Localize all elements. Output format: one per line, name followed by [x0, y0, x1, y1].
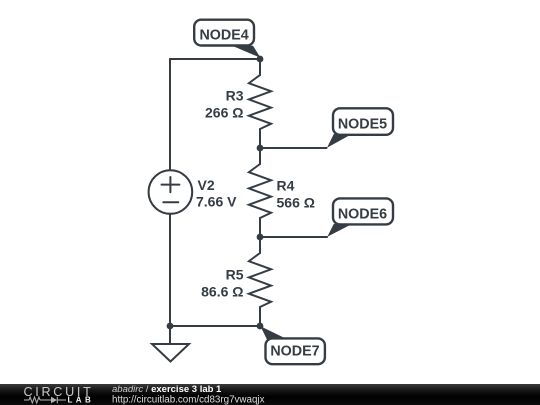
svg-text:NODE6: NODE6: [338, 206, 387, 222]
svg-text:V2: V2: [198, 177, 215, 193]
footer bar: [0, 384, 540, 405]
svg-text:NODE4: NODE4: [199, 27, 248, 43]
svg-text:7.66 V: 7.66 V: [196, 194, 237, 210]
wire left upper: [169, 59, 171, 171]
wire top net NODE4: [170, 58, 260, 60]
wire NODE5 stub: [260, 147, 327, 149]
wire R3 top lead: [259, 59, 261, 75]
junction dot ground node: [167, 323, 174, 330]
svg-text:NODE5: NODE5: [338, 116, 387, 132]
wire R5 top lead: [259, 237, 261, 253]
wire R3 bottom lead: [259, 129, 261, 148]
svg-text:abadirc / exercise 3 lab 1: abadirc / exercise 3 lab 1: [112, 384, 222, 395]
node flag NODE4: [194, 20, 260, 58]
node flag NODE7: [261, 326, 325, 364]
svg-text:566 Ω: 566 Ω: [277, 195, 315, 211]
node flag NODE6: [327, 198, 393, 236]
junction dot NODE6: [257, 234, 264, 241]
node flag NODE5: [327, 108, 393, 147]
resistor R4: [249, 164, 271, 218]
resistor R3: [249, 75, 271, 129]
wire left lower: [169, 214, 171, 326]
junction dot NODE5: [257, 145, 264, 152]
junction dot NODE7: [257, 323, 264, 330]
logo wire-resistor-diode glyph: [24, 397, 66, 404]
voltage source V2: [149, 170, 193, 214]
wire R4 top lead: [259, 148, 261, 164]
svg-text:R3: R3: [226, 88, 244, 104]
svg-text:http://circuitlab.com/cd83rg7v: http://circuitlab.com/cd83rg7vwaqjx: [112, 394, 265, 405]
svg-text:LAB: LAB: [68, 396, 95, 405]
svg-text:266 Ω: 266 Ω: [205, 105, 243, 121]
svg-text:R5: R5: [226, 267, 244, 283]
svg-text:R4: R4: [277, 178, 295, 194]
wire NODE6 stub: [260, 236, 327, 238]
ground: [152, 326, 189, 362]
svg-text:86.6 Ω: 86.6 Ω: [201, 284, 243, 300]
junction dot NODE4: [257, 56, 264, 63]
wire R4 bottom lead: [259, 218, 261, 237]
wire R5 bottom lead: [259, 307, 261, 326]
resistor R5: [249, 253, 271, 307]
wire bottom net NODE7: [170, 325, 260, 327]
svg-text:NODE7: NODE7: [270, 343, 319, 359]
